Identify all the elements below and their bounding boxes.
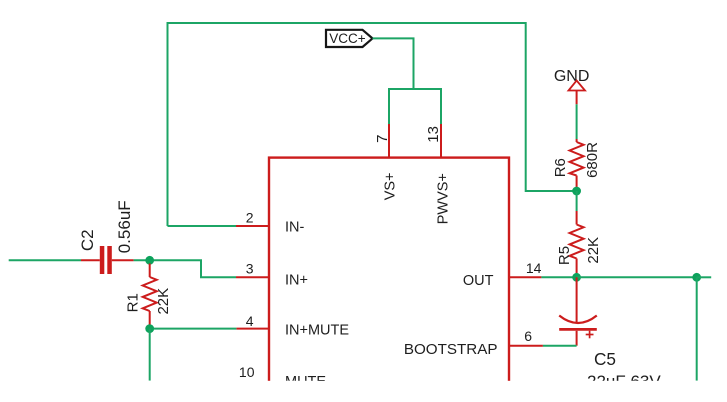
wire input left [9, 259, 81, 261]
resistor R5 22K [556, 211, 602, 274]
wire down from R1 junction [149, 329, 151, 381]
wire R5 to OUT node [576, 274, 578, 277]
node junction right [692, 273, 701, 282]
capacitor C5 [559, 277, 661, 391]
svg-text:7: 7 [374, 135, 391, 143]
pin 6 BOOTSTRAP [404, 328, 543, 358]
svg-text:6: 6 [524, 328, 532, 344]
wire junction to pin 3 [150, 260, 236, 277]
node junction R6/R5 [572, 187, 581, 196]
pin 13 PWVS+ [425, 124, 452, 224]
wire GND to R6 [576, 104, 578, 139]
svg-text:PWVS+: PWVS+ [436, 173, 452, 224]
svg-text:0.56uF: 0.56uF [115, 200, 134, 253]
resistor R6 680R [552, 139, 601, 191]
svg-text:2: 2 [246, 209, 254, 225]
wire to pin 2 [168, 225, 237, 227]
op-amp U1 body [269, 158, 509, 398]
wire R6 junction to R5 [576, 191, 578, 211]
svg-text:3: 3 [246, 260, 254, 276]
pin 14 OUT [463, 260, 542, 289]
pin 10 MUTE [239, 364, 326, 390]
wire OUT node to right [577, 276, 697, 278]
svg-text:680R: 680R [584, 142, 601, 178]
svg-text:13: 13 [425, 126, 442, 143]
pin 4 IN+MUTE [236, 313, 349, 339]
wire C2 to junction [134, 259, 150, 261]
svg-text:C5: C5 [594, 349, 616, 369]
wire pin14 to node [541, 276, 576, 278]
svg-text:IN-: IN- [285, 219, 305, 235]
svg-text:22K: 22K [585, 237, 602, 264]
wire pin 6 to C5 [543, 345, 577, 347]
pin 3 IN+ [236, 260, 308, 288]
svg-text:C2: C2 [78, 229, 97, 251]
wire junction R1 to pin 4 [150, 328, 237, 330]
svg-text:R5: R5 [556, 246, 573, 265]
capacitor C2 [78, 200, 134, 274]
svg-text:IN+MUTE: IN+MUTE [285, 323, 349, 339]
power flag VCC+ [326, 30, 373, 47]
ground GND [554, 68, 590, 104]
pin 2 IN- [236, 209, 305, 235]
svg-text:GND: GND [554, 68, 590, 85]
wire right vertical down [696, 277, 698, 380]
svg-text:10: 10 [239, 364, 255, 380]
wire top horizontal VCC loop [168, 23, 576, 226]
node junction C2/R1 [145, 256, 154, 265]
node junction R1/pin4 [145, 324, 154, 333]
node junction OUT [572, 273, 581, 282]
svg-text:VCC+: VCC+ [329, 31, 366, 46]
svg-text:OUT: OUT [463, 273, 494, 289]
wire right stub [697, 276, 712, 278]
svg-text:4: 4 [246, 313, 254, 329]
svg-text:R1: R1 [125, 293, 142, 312]
pin 7 VS+ [374, 124, 399, 200]
svg-text:22K: 22K [155, 288, 172, 315]
svg-text:IN+: IN+ [285, 273, 308, 289]
wire VCC+ flag to pins 7/13 [373, 38, 442, 124]
svg-text:VS+: VS+ [383, 172, 399, 200]
resistor R1 [125, 264, 173, 329]
page clip bottom [0, 381, 727, 402]
svg-text:14: 14 [526, 260, 542, 276]
svg-text:BOOTSTRAP: BOOTSTRAP [404, 341, 498, 358]
svg-text:R6: R6 [552, 158, 569, 177]
